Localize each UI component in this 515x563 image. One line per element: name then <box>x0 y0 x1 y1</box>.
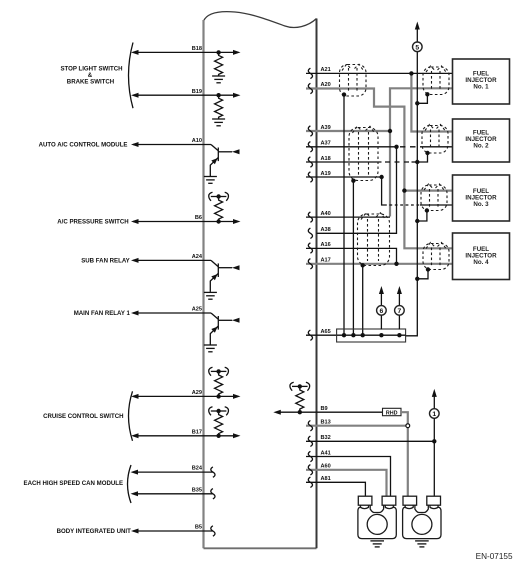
pin squiggle A81 <box>308 477 312 487</box>
svg-text:B19: B19 <box>192 89 202 95</box>
svg-text:A81: A81 <box>321 476 331 482</box>
wire A19 branch to injector 3 lower <box>382 177 453 205</box>
svg-text:B13: B13 <box>321 420 331 426</box>
wire RHD to connector <box>401 412 408 498</box>
wire B5 <box>131 525 213 534</box>
wire A20 <box>306 82 453 248</box>
wire injector 1 lower (from A39/A40 bus) <box>390 88 453 216</box>
pin squiggle A38 <box>308 228 312 238</box>
pin squiggle B24 <box>211 467 215 477</box>
node A37/A38 join <box>394 145 398 149</box>
label stop light switch <box>60 65 122 85</box>
wire A17 <box>306 258 453 264</box>
svg-text:A24: A24 <box>192 254 203 260</box>
svg-text:A65: A65 <box>321 329 331 335</box>
svg-text:A10: A10 <box>192 138 202 144</box>
pin squiggle B32 <box>308 436 312 446</box>
wire A81 <box>306 476 365 498</box>
svg-text:B17: B17 <box>192 429 202 435</box>
internal rail curls above A29 pull-up <box>209 367 229 376</box>
svg-text:A21: A21 <box>321 67 331 73</box>
svg-text:B24: B24 <box>192 466 203 472</box>
svg-text:No. 3: No. 3 <box>473 201 489 208</box>
shielded twisted pair symbol group 2 (A35/A37/A18/A19) <box>349 126 378 180</box>
shield symbol at injector 3 <box>421 184 447 211</box>
wire B24 <box>131 466 214 475</box>
shield drain group 3 to bus bar <box>361 263 365 334</box>
fuel injector No.4 box <box>453 233 510 280</box>
wire B6 <box>131 215 241 224</box>
svg-text:A60: A60 <box>321 464 331 470</box>
wire A38 riser <box>317 147 397 234</box>
circle 1 reference with up arrow <box>430 389 440 418</box>
wire A16 <box>306 242 397 264</box>
svg-text:A18: A18 <box>321 156 331 162</box>
drain injector 2 shield <box>415 151 430 164</box>
wire A37 <box>306 141 453 147</box>
wire circle 1 down to connector <box>433 418 435 497</box>
svg-text:A25: A25 <box>192 307 202 313</box>
transistor Q3 (A25 driver) <box>210 313 239 345</box>
svg-text:6: 6 <box>380 308 384 315</box>
svg-text:B35: B35 <box>192 487 202 493</box>
resistor on B18 <box>215 52 223 76</box>
wire A60 <box>306 464 387 498</box>
node A20 branch to injector 3 <box>402 188 406 192</box>
svg-text:A39: A39 <box>321 125 331 131</box>
svg-text:5: 5 <box>415 44 419 51</box>
svg-text:A38: A38 <box>321 227 331 233</box>
pin squiggle A37 <box>308 142 312 152</box>
fuel injector No.3 box <box>453 175 510 221</box>
svg-text:MAIN FAN RELAY 1: MAIN FAN RELAY 1 <box>74 310 131 317</box>
pin squiggle B5 <box>211 526 215 536</box>
wire A25 <box>131 307 211 316</box>
wire branch to injector 3 top <box>404 190 453 192</box>
wire B32 <box>306 435 434 441</box>
ground of Q1 <box>204 177 217 184</box>
pin squiggle A60 <box>308 465 312 475</box>
wire B35 <box>131 487 214 496</box>
wire B18 <box>131 46 241 55</box>
pin squiggle A20 <box>308 83 312 93</box>
node on B6 <box>216 219 220 223</box>
svg-text:A41: A41 <box>321 450 331 456</box>
ground bus bar <box>337 329 406 342</box>
pin squiggle A41 <box>308 451 312 461</box>
svg-text:7: 7 <box>398 308 402 315</box>
wire A65 <box>306 329 337 335</box>
drain injector 4 shield <box>415 267 430 281</box>
svg-text:BODY INTEGRATED UNIT: BODY INTEGRATED UNIT <box>57 528 132 535</box>
svg-text:AUTO A/C CONTROL MODULE: AUTO A/C CONTROL MODULE <box>39 141 128 148</box>
wire A24 <box>131 254 211 263</box>
node A16 on A17 wire <box>394 262 398 266</box>
svg-text:A17: A17 <box>321 258 331 264</box>
bracket cruise control switch <box>129 391 133 441</box>
wire A39 <box>306 125 390 131</box>
node bus bar junctions <box>342 333 402 337</box>
node on B17 <box>216 434 220 438</box>
node on B18 <box>216 50 220 54</box>
wire A40 <box>306 216 390 218</box>
shielded twisted pair symbol group 3 (A40/A38/A16/A17) <box>358 213 390 266</box>
pin squiggle A19 <box>308 172 312 182</box>
svg-text:B18: B18 <box>192 46 202 52</box>
svg-text:EN-07155: EN-07155 <box>476 552 513 561</box>
pin squiggle B13 <box>308 421 312 431</box>
ground left connector <box>370 541 384 547</box>
pull-up resistor A29 <box>215 371 223 396</box>
pin squiggle A65 <box>308 330 312 340</box>
pull-up resistor B9 <box>296 386 304 411</box>
pin squiggle A17 <box>308 259 312 269</box>
oxygen sensor connector left <box>358 496 396 538</box>
transistor Q1 (A10 driver) <box>210 145 239 177</box>
drain injector 1 shield <box>415 92 430 105</box>
svg-text:BRAKE SWITCH: BRAKE SWITCH <box>67 78 114 85</box>
ground under B18 resistor <box>212 76 225 83</box>
node A19 branch <box>379 175 383 179</box>
circle 6 reference with up arrow <box>377 286 387 330</box>
wire A29 <box>131 390 241 399</box>
svg-text:No. 2: No. 2 <box>473 142 489 149</box>
ground under B19 resistor <box>212 119 225 126</box>
pin squiggle B35 <box>211 489 215 499</box>
svg-text:B9: B9 <box>321 406 328 412</box>
internal rail curls above B6 pull-up <box>209 192 229 201</box>
svg-text:B5: B5 <box>195 525 202 531</box>
svg-text:1: 1 <box>432 411 436 418</box>
svg-text:A/C PRESSURE SWITCH: A/C PRESSURE SWITCH <box>57 218 128 225</box>
svg-text:No. 4: No. 4 <box>473 259 489 266</box>
pull-up resistor B17 <box>215 411 223 436</box>
oxygen sensor connector right <box>403 496 441 538</box>
svg-text:EACH HIGH SPEED CAN MODULE: EACH HIGH SPEED CAN MODULE <box>24 480 124 487</box>
circle 5 reference with up arrow <box>413 22 423 52</box>
node B32 on circle 1 wire <box>432 439 436 443</box>
wire A19 <box>306 171 382 177</box>
svg-text:B32: B32 <box>321 435 331 441</box>
fuel injector No.1 box <box>453 59 510 104</box>
pin squiggle A21 <box>308 68 312 78</box>
fuel injector No.2 box <box>453 119 510 162</box>
svg-text:No. 1: No. 1 <box>473 83 489 90</box>
svg-text:A40: A40 <box>321 211 331 217</box>
open circle junction B13/RHD <box>406 424 410 428</box>
wire B17 <box>131 429 241 438</box>
pin squiggle A39 <box>308 126 312 136</box>
transistor Q2 (A24 driver) <box>210 260 239 292</box>
svg-text:A29: A29 <box>192 390 202 396</box>
ECM box outline with wavy top <box>204 12 317 549</box>
shield bus from circle 5 <box>406 52 418 336</box>
node A39 on supply bus <box>388 129 392 133</box>
ground right connector <box>415 541 429 547</box>
svg-text:A20: A20 <box>321 82 331 88</box>
node on B19 <box>216 93 220 97</box>
wire B13 <box>306 420 406 426</box>
internal rail curls above B17 pull-up <box>209 407 229 416</box>
svg-text:A19: A19 <box>321 171 331 177</box>
node on B6 rail <box>216 194 220 198</box>
node on A29 <box>216 394 220 398</box>
circle 7 reference with up arrow <box>395 286 405 330</box>
shield symbol at injector 4 <box>423 243 449 270</box>
internal rail curls above B9 pull-up <box>290 382 310 391</box>
pin squiggle A40 <box>308 212 312 222</box>
ground of Q2 <box>204 292 217 299</box>
resistor on B19 <box>215 95 223 119</box>
pin squiggle A16 <box>308 243 312 253</box>
wire B19 <box>131 89 241 98</box>
svg-text:CRUISE CONTROL SWITCH: CRUISE CONTROL SWITCH <box>43 413 123 420</box>
node on B9 rail <box>298 384 302 388</box>
node on B17 rail <box>216 409 220 413</box>
drain injector 3 shield <box>415 208 429 223</box>
RHD box <box>383 408 402 416</box>
svg-text:RHD: RHD <box>386 410 398 416</box>
wire A10 <box>131 138 211 147</box>
shield drain group 2 to bus bar <box>351 179 355 335</box>
bracket stop light switch <box>129 43 134 109</box>
svg-text:SUB FAN RELAY: SUB FAN RELAY <box>81 257 130 264</box>
ground of Q3 <box>204 345 217 352</box>
node A21/supply branch <box>409 71 413 75</box>
node on A29 rail <box>216 369 220 373</box>
shield drain group 1 to bus bar <box>342 92 346 334</box>
shield symbol at injector 2 <box>422 125 448 154</box>
wire B9 with internal arrow <box>273 406 382 415</box>
bracket CAN module <box>128 465 132 503</box>
wire supply branch to injector 2 <box>411 73 453 131</box>
node on B9 <box>298 410 302 414</box>
wire A18 <box>306 156 417 162</box>
svg-text:A16: A16 <box>321 242 331 248</box>
shield symbol at injector 1 <box>423 66 449 95</box>
pin squiggle A18 <box>308 157 312 167</box>
svg-text:B6: B6 <box>195 215 202 221</box>
pull-up resistor B6 <box>215 197 223 222</box>
wire A41 <box>306 450 391 497</box>
svg-text:A37: A37 <box>321 141 331 147</box>
wire A21 <box>306 67 453 73</box>
shielded twisted pair symbol group 1 (A21/A20) <box>340 64 367 96</box>
